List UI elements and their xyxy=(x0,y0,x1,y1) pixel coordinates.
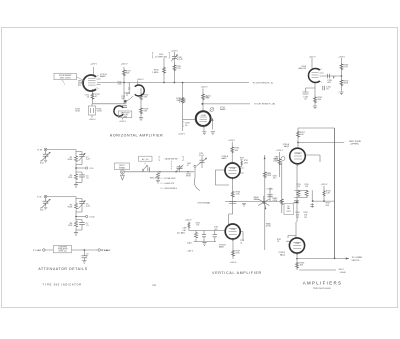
svg-text:74.5K: 74.5K xyxy=(97,111,103,113)
svg-text:INPUT: INPUT xyxy=(186,176,191,178)
svg-text:47: 47 xyxy=(126,95,128,97)
svg-text:V. IN: V. IN xyxy=(37,196,42,198)
svg-text:+100 V: +100 V xyxy=(230,262,238,264)
svg-text:-150 V: -150 V xyxy=(187,251,194,253)
svg-text:1.2K: 1.2K xyxy=(326,193,331,195)
svg-text:.001: .001 xyxy=(273,178,276,180)
svg-text:GEN. V135 B: GEN. V135 B xyxy=(60,78,72,80)
svg-text:(UPPER): (UPPER) xyxy=(351,144,360,146)
svg-text:111K: 111K xyxy=(68,177,73,179)
svg-text:+225 V: +225 V xyxy=(121,64,129,66)
svg-text:+100 V: +100 V xyxy=(178,133,186,135)
svg-text:+225 V: +225 V xyxy=(309,56,317,58)
svg-text:470K: 470K xyxy=(266,226,271,228)
svg-text:R601 1M: R601 1M xyxy=(150,178,157,180)
svg-text:+100 V: +100 V xyxy=(119,121,127,123)
svg-text:VERT PL.: VERT PL. xyxy=(352,260,361,262)
svg-text:100K: 100K xyxy=(273,161,278,163)
svg-text:8-50: 8-50 xyxy=(40,210,43,212)
svg-text:ADJ.: ADJ. xyxy=(78,84,82,87)
svg-text:ATTENUATOR DETAILS: ATTENUATOR DETAILS xyxy=(38,267,87,271)
svg-text:1-38-6B: 1-38-6B xyxy=(340,272,347,274)
svg-text:220K: 220K xyxy=(267,175,272,177)
svg-text:.001: .001 xyxy=(121,98,124,100)
svg-text:AC - DC: AC - DC xyxy=(142,158,149,161)
svg-text:4.7M: 4.7M xyxy=(181,101,186,103)
svg-text:+225 V: +225 V xyxy=(228,140,236,142)
svg-text:GAIN: GAIN xyxy=(254,198,259,201)
svg-text:100K: 100K xyxy=(344,83,349,85)
svg-text:+225 V: +225 V xyxy=(201,87,209,89)
svg-text:TO LOWER: TO LOWER xyxy=(352,257,363,259)
svg-text:2 — 0-6000 CPS: 2 — 0-6000 CPS xyxy=(161,183,175,185)
svg-text:TO CRT HORIZ PL. (R): TO CRT HORIZ PL. (R) xyxy=(254,103,275,105)
svg-text:6AQ5: 6AQ5 xyxy=(284,145,290,148)
svg-text:(CAL): (CAL) xyxy=(187,241,192,244)
svg-text:900K: 900K xyxy=(68,159,73,161)
svg-text:6AW8: 6AW8 xyxy=(100,75,106,78)
svg-text:+100 V: +100 V xyxy=(137,79,145,81)
svg-text:+225 V: +225 V xyxy=(90,64,98,66)
svg-text:TO CRT HORIZ PL. (L): TO CRT HORIZ PL. (L) xyxy=(253,82,274,84)
svg-text:[TRIG SIGNAL]: [TRIG SIGNAL] xyxy=(198,202,211,205)
svg-text:3 — TELEPHONE S: 3 — TELEPHONE S xyxy=(161,188,178,190)
svg-text:6AQ5: 6AQ5 xyxy=(280,253,286,256)
svg-text:1 — DC BAL R612: 1 — DC BAL R612 xyxy=(161,177,176,180)
svg-text:+225 V: +225 V xyxy=(276,150,284,152)
svg-text:2 V SAW: 2 V SAW xyxy=(33,249,41,252)
svg-text:47: 47 xyxy=(86,256,88,258)
svg-text:VERTICAL AMPLIFIER: VERTICAL AMPLIFIER xyxy=(212,271,262,275)
svg-text:X 100: X 100 xyxy=(89,216,95,218)
svg-text:(NOTE 1-4): (NOTE 1-4) xyxy=(59,251,67,253)
svg-text:3.3K: 3.3K xyxy=(236,253,241,255)
svg-text:X 1000: X 1000 xyxy=(102,250,109,252)
svg-text:4.5-25: 4.5-25 xyxy=(177,59,184,61)
svg-text:[DC BAL]: [DC BAL] xyxy=(177,231,185,234)
svg-text:2.2K: 2.2K xyxy=(236,194,241,196)
svg-text:.005: .005 xyxy=(214,229,217,231)
svg-text:470K: 470K xyxy=(273,200,278,202)
svg-text:47: 47 xyxy=(187,165,189,167)
svg-text:SIGNAL: SIGNAL xyxy=(119,167,126,170)
svg-text:HORIZONTAL AMPLIFIER: HORIZONTAL AMPLIFIER xyxy=(110,134,163,138)
svg-text:+225 V: +225 V xyxy=(338,56,346,58)
svg-text:1 MEG: 1 MEG xyxy=(152,72,159,74)
svg-text:H. IN: H. IN xyxy=(38,149,43,151)
svg-text:8-50: 8-50 xyxy=(40,163,43,165)
svg-text:TYPE 310 PLUG-IN: TYPE 310 PLUG-IN xyxy=(313,288,331,290)
svg-text:10 MEGOHM: 10 MEGOHM xyxy=(58,247,68,249)
svg-text:C749: C749 xyxy=(204,97,208,99)
svg-text:V733B: V733B xyxy=(230,229,235,231)
svg-text:7.7K: 7.7K xyxy=(344,67,349,69)
svg-text:111K: 111K xyxy=(68,225,73,227)
svg-text:900K: 900K xyxy=(68,207,73,209)
svg-text:74.5K: 74.5K xyxy=(75,111,81,113)
svg-text:V753B: V753B xyxy=(295,243,300,245)
svg-text:2: 2 xyxy=(64,83,65,85)
svg-text:1W: 1W xyxy=(296,217,299,219)
svg-text:R677: R677 xyxy=(287,211,291,213)
svg-text:2W: 2W xyxy=(304,217,307,219)
svg-text:+100 V: +100 V xyxy=(185,220,193,222)
svg-text:AMPLIFIERS: AMPLIFIERS xyxy=(303,280,343,285)
svg-text:TYPE 360 INDICATOR: TYPE 360 INDICATOR xyxy=(43,283,82,287)
svg-text:6AQ5 W: 6AQ5 W xyxy=(298,67,306,70)
svg-text:DC SHIFT ADJ: DC SHIFT ADJ xyxy=(155,55,167,58)
svg-text:+225 V: +225 V xyxy=(321,184,329,186)
svg-text:6AW8: 6AW8 xyxy=(220,108,226,111)
svg-text:V. GAIN: V. GAIN xyxy=(267,187,274,190)
svg-text:+100 V: +100 V xyxy=(89,119,97,121)
svg-text:CAL ATTEN SW: CAL ATTEN SW xyxy=(165,158,178,161)
svg-text:TO CRT: TO CRT xyxy=(122,115,128,117)
svg-text:4.5-25: 4.5-25 xyxy=(199,155,204,157)
svg-text:.01: .01 xyxy=(240,242,242,244)
svg-text:4.7K: 4.7K xyxy=(177,68,182,70)
svg-text:VERT PLATE: VERT PLATE xyxy=(349,140,362,143)
svg-text:+225 V: +225 V xyxy=(171,50,179,52)
